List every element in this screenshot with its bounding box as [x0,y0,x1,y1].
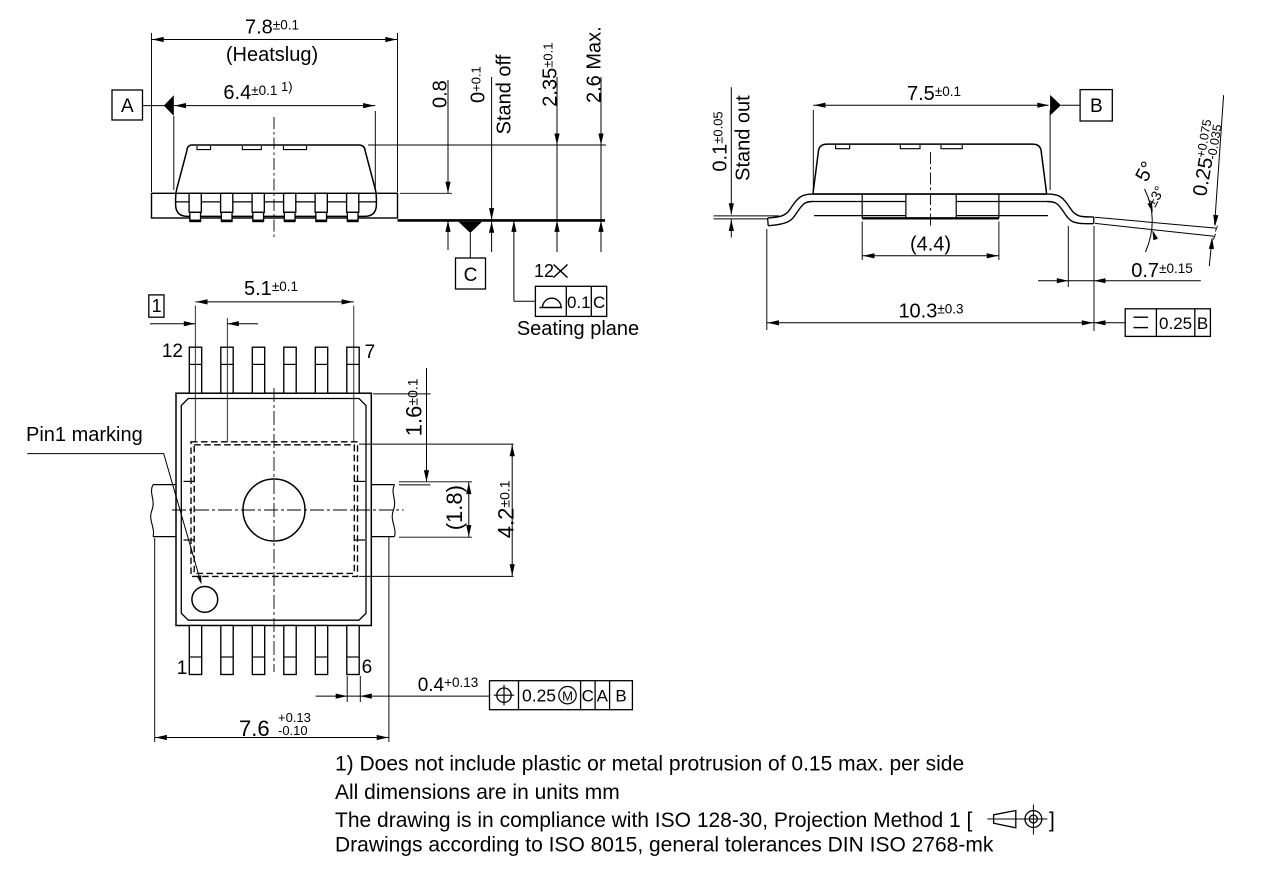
dimension 0.7 line with outside arrows [1038,280,1201,282]
svg-text:0.1±0.05: 0.1±0.05 [710,111,732,171]
stand off value text (rotated) [468,66,490,103]
top view: heatslug hidden outline (dashed, inner) [194,445,354,574]
dimension 0.25 ticks at wedge end [1215,226,1217,232]
view B: right gull-wing lead [1047,194,1094,224]
angle 5 degree text (rotated) [1131,158,1159,185]
dimension 1.6 text (rotated) [402,378,427,436]
stand out dimension upper [730,87,732,214]
svg-text:Seating plane: Seating plane [517,318,639,340]
dimension 0.25 lead thickness, slanted [1215,95,1224,225]
svg-text:0.4+0.13: 0.4+0.13 [418,675,479,696]
view A: mold marks on body top [197,146,211,150]
top view: right tab [371,484,394,486]
projection method symbol: circles [1025,811,1042,828]
svg-text:(Heatslug): (Heatslug) [226,44,318,66]
stand out value text (rotated) [710,111,732,171]
view B: heatslug verticals [861,194,863,218]
view A: leads through bar with feet [189,193,201,212]
dimension (4.4) line with arrows [862,255,999,257]
svg-text:Stand off: Stand off [494,54,516,134]
Pin1 marking leader [27,454,199,578]
position symbol [497,688,511,702]
svg-text:C: C [593,293,605,312]
view B: stand out reference lines [714,215,780,217]
view B: centerline [930,152,932,228]
svg-text:7.6: 7.6 [239,716,270,741]
datum C solid triangle on seating plane [459,222,483,233]
view B: mold marks on body top [836,145,850,149]
dimension (4.4) extension lines [861,222,863,261]
dimension 7.5 extension lines [812,110,814,190]
top view: vertical centerline [273,388,275,672]
svg-text:2.6 Max.: 2.6 Max. [584,26,606,103]
svg-text:5.1±0.1: 5.1±0.1 [244,278,298,300]
tab bottom extension line [399,536,472,538]
svg-text:12: 12 [162,341,183,362]
seating plane line (thick) [398,219,606,222]
dimension 1.6 line [426,368,428,482]
seating plane tolerance leader [513,220,515,301]
dimension 7.8 line with arrows [152,39,398,41]
package top extension line [368,144,606,146]
pitch basic dimension box 1 [149,295,164,317]
svg-text:2.35±0.1: 2.35±0.1 [540,43,562,107]
svg-text:Stand out: Stand out [733,95,755,181]
top view: body outer outline [176,393,371,625]
dimension 0.25 tolerance text (rotated) [1187,118,1225,198]
dimension (1.8) line with arrows [468,482,470,537]
view A: heatslug bar (side view) [152,193,398,218]
stand off label text (rotated) [494,54,516,134]
datum B solid triangle [1050,95,1061,116]
dimension 0.7 extension line [1067,226,1069,287]
dimension 0.8 text (rotated) [430,80,452,108]
svg-text:12: 12 [534,261,554,281]
dimension 2.35 text (rotated) [540,43,562,107]
pitch extension lines [194,306,196,442]
svg-text:7.5±0.1: 7.5±0.1 [907,83,961,105]
svg-text:0.8: 0.8 [430,80,452,108]
svg-text:7.8±0.1: 7.8±0.1 [245,17,299,39]
svg-text:]: ] [1049,809,1055,832]
dimension 0.4 extension lines [346,676,348,702]
svg-text:0.1: 0.1 [567,293,591,312]
top view: tab root stubs [184,480,195,482]
view A: package body outline [176,145,377,216]
dimension 7.8 (heatslug) extension lines [151,33,153,192]
view A: lead shoulder line inside bar [176,201,376,203]
dimension 10.3 line with arrows [767,322,1094,324]
svg-text:6: 6 [362,657,373,678]
heatslug bottom extension line [359,575,514,577]
view B: left gull-wing lead [768,194,813,226]
heatslug top extension line [359,443,514,445]
dimension 7.6 line with arrows [155,737,389,739]
datum C leader [469,233,471,258]
svg-text:M: M [562,689,573,704]
view B: rail second line [813,201,906,203]
svg-text:Drawings according to ISO 8015: Drawings according to ISO 8015, general … [335,833,994,856]
svg-text:0.7±0.15: 0.7±0.15 [1131,260,1193,282]
dimension 0.8 lower arrow [447,220,449,250]
svg-text:7: 7 [365,342,376,363]
top view: pins 12..7 (top row) [189,347,201,393]
view B: lead end gauge wedge [1095,217,1216,228]
tab top extension line [399,481,472,483]
top view: left tab [153,484,176,486]
dimension 2.6 Max text (rotated) [584,26,606,103]
svg-text:C: C [582,687,594,706]
datum A leader [143,105,166,107]
top view: center hole circle [243,479,305,541]
svg-text:1.6±0.1: 1.6±0.1 [402,378,427,436]
view B: package body outline [813,144,1047,194]
svg-text:0.25: 0.25 [1159,314,1192,333]
projection method symbol: centerline [987,818,1047,820]
dimension 4.2 text (rotated) [494,480,519,538]
seating plane tolerance frame [535,286,606,316]
svg-text:(1.8): (1.8) [442,485,467,530]
heatslug top extension line [400,192,452,194]
svg-text:5°: 5° [1131,158,1159,185]
svg-text:A: A [121,96,134,117]
svg-text:1: 1 [152,296,162,316]
datum A box [112,90,143,120]
position tolerance frame [490,681,633,710]
top view: horizontal centerline [172,509,404,511]
dimension 6.4 extension line right [374,111,376,190]
view A: body centerline [273,117,275,240]
svg-text:6.4±0.1 1): 6.4±0.1 1) [223,79,292,104]
dimension 7.5 line with arrows [813,104,1048,106]
dimension 2.35 line [556,77,558,220]
dimension (1.8) text (rotated) [442,485,467,530]
svg-text:A: A [597,687,609,706]
svg-text:-0.10: -0.10 [278,723,308,738]
frame leader to lead tip [1094,322,1125,324]
svg-text:B: B [615,687,626,706]
svg-text:±3°: ±3° [1144,183,1168,209]
datum B leader [1061,104,1080,106]
view B: heatslug pad bottom (thick) [862,217,999,219]
dimension 7.6 extension lines [154,538,156,742]
view B: rail bottom line [814,215,906,217]
datum B box [1080,90,1112,121]
svg-text:(4.4): (4.4) [910,233,951,255]
svg-text:0.25: 0.25 [1189,156,1217,198]
pin1 marking circle [192,587,218,613]
svg-text:B: B [1090,96,1103,117]
projection method symbol: cone [994,811,1016,828]
svg-text:0.25: 0.25 [522,686,556,706]
stand out dimension lower [730,220,732,238]
dimension 10.3 extension lines [766,229,768,330]
svg-text:1: 1 [177,658,188,679]
top view: pins 1..6 (bottom row) [189,626,201,675]
top view: heatslug hidden outline (dashed, outer) [191,442,358,577]
stand out label text (rotated) [733,95,755,181]
angle 5 degree arc [1145,189,1153,252]
view B: lead frame rail top line [813,193,1048,195]
dimension 1.6 extension line from body corner [373,393,431,395]
dimension 0.4 line with outside arrows [316,695,490,697]
svg-text:C: C [464,265,478,286]
dimension 5.1 line with arrows [195,301,353,303]
dimension 6.4 line with arrows [174,105,375,107]
svg-text:1) Does not include plastic or: 1) Does not include plastic or metal pro… [335,753,964,776]
dimension 4.2 line with arrows [511,444,513,576]
dimension 0.8 line upper [447,80,449,193]
dimension 2.6 Max line [600,77,602,220]
seating plane symbol (half circle) [540,298,563,307]
svg-text:10.3±0.3: 10.3±0.3 [898,301,963,323]
svg-text:B: B [1197,314,1208,333]
parallelism tolerance frame 0.25 B [1125,309,1210,337]
svg-text:The drawing is in compliance w: The drawing is in compliance with ISO 12… [335,809,972,832]
pitch dimension line with outside arrows [150,323,195,325]
datum A solid triangle [164,95,174,116]
stand off dimension line [491,77,493,219]
datum C box [456,258,486,289]
svg-text:All dimensions are in units mm: All dimensions are in units mm [335,781,620,804]
svg-text:Pin1 marking: Pin1 marking [26,424,143,446]
svg-text:4.2±0.1: 4.2±0.1 [494,480,519,538]
svg-text:0+0.1: 0+0.1 [468,66,490,103]
top view: body inner outline with chamfers [181,399,366,621]
